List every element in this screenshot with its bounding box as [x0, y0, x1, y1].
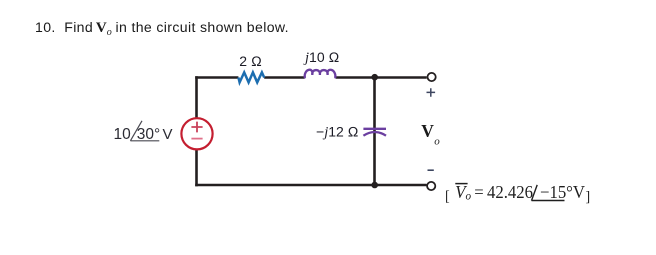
answer angle mark (slash and underline) [440, 178, 610, 208]
svg-text:30°: 30° [137, 126, 160, 143]
wire middle vertical branch [373, 78, 376, 186]
voltage source VS1 angle symbol mark [130, 121, 159, 141]
wire bottom horizontal [195, 184, 426, 187]
node B junction dot bottom [371, 182, 378, 189]
voltage source VS1 circle [181, 118, 212, 149]
wire left vertical lower (source to bottom) [195, 149, 198, 186]
wire between resistor and inductor [264, 76, 305, 79]
wire left vertical upper (corner to source) [195, 76, 198, 118]
svg-text:j10 Ω: j10 Ω [303, 49, 339, 66]
terminal a open circle top [428, 73, 436, 81]
voltage source VS1 minus sign [191, 138, 202, 140]
voltage source VS1 plus sign [191, 122, 202, 133]
output polarity minus sign [428, 169, 434, 171]
wire top-left horizontal segment [195, 76, 238, 79]
svg-text:V: V [163, 126, 173, 143]
resistor R1 (2 ohm) zigzag [238, 72, 264, 82]
svg-text:−j12 Ω: −j12 Ω [316, 124, 359, 141]
svg-text:2 Ω: 2 Ω [239, 53, 262, 69]
svg-text:V: V [421, 121, 434, 141]
wire inductor to top terminal [336, 76, 427, 79]
inductor L1 (j10 ohm) coil [305, 70, 336, 78]
terminal b open circle bottom [427, 182, 435, 190]
capacitor C1 curved bottom plate [363, 132, 386, 136]
svg-text:10: 10 [114, 126, 132, 143]
answer text [445, 182, 590, 206]
svg-text:o: o [434, 136, 440, 148]
capacitor C1 (-j12 ohm) top plate [363, 128, 386, 130]
output polarity plus sign [427, 88, 436, 97]
node A junction dot top [371, 74, 378, 81]
title text [35, 19, 289, 38]
